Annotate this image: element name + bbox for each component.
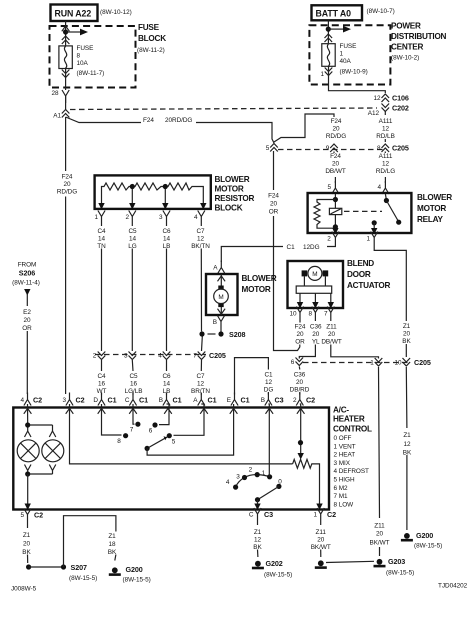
svg-text:C7: C7 bbox=[196, 373, 205, 380]
svg-text:4 DEFROST: 4 DEFROST bbox=[334, 468, 370, 475]
svg-text:2: 2 bbox=[93, 353, 97, 360]
svg-text:1: 1 bbox=[366, 236, 370, 243]
svg-text:G200: G200 bbox=[126, 565, 143, 574]
svg-text:FUSE: FUSE bbox=[138, 23, 160, 32]
svg-text:E2: E2 bbox=[23, 309, 31, 316]
svg-text:G202: G202 bbox=[266, 559, 283, 568]
svg-text:OR: OR bbox=[22, 325, 32, 332]
blower motor internals bbox=[220, 274, 222, 315]
svg-text:C205: C205 bbox=[392, 144, 409, 153]
svg-text:M: M bbox=[218, 294, 223, 301]
svg-text:Z1: Z1 bbox=[254, 529, 262, 536]
ground G202 bbox=[252, 561, 264, 570]
svg-text:LB: LB bbox=[163, 243, 171, 250]
svg-text:LG: LG bbox=[128, 243, 137, 250]
svg-text:BK/TN: BK/TN bbox=[191, 243, 210, 250]
svg-text:C36: C36 bbox=[310, 324, 322, 331]
svg-text:20: 20 bbox=[317, 537, 325, 544]
svg-text:C106: C106 bbox=[392, 94, 409, 103]
svg-text:4: 4 bbox=[194, 214, 198, 221]
ground G200 left bbox=[109, 567, 121, 576]
wire Z1 12 BK to G202 bbox=[257, 521, 259, 557]
wire fuse to pin 28 bbox=[65, 69, 67, 91]
svg-text:FUSE: FUSE bbox=[77, 45, 94, 52]
connector C205 bottom dashed line bbox=[303, 362, 410, 364]
svg-text:(8W-10-7): (8W-10-7) bbox=[367, 8, 395, 15]
svg-text:S207: S207 bbox=[71, 563, 87, 572]
svg-text:C2: C2 bbox=[306, 396, 315, 405]
svg-text:DB/WT: DB/WT bbox=[325, 168, 345, 175]
ground stud joint bbox=[315, 560, 327, 569]
relay internal resistor bbox=[314, 200, 335, 229]
svg-text:12: 12 bbox=[382, 161, 390, 168]
svg-text:12: 12 bbox=[403, 441, 411, 448]
relay coil bbox=[329, 208, 341, 214]
svg-text:BLOWER: BLOWER bbox=[242, 274, 277, 283]
svg-text:BK: BK bbox=[402, 338, 411, 345]
svg-text:10: 10 bbox=[394, 360, 402, 367]
node relay coil top bbox=[333, 197, 338, 202]
lamp return wire to pin 5 C2 bbox=[27, 474, 29, 509]
mode switch wiper arm bbox=[258, 486, 279, 499]
fuse F8 10A bbox=[59, 46, 72, 69]
actuator linkage bar bbox=[296, 286, 332, 293]
svg-text:BK: BK bbox=[403, 450, 412, 457]
wire BATT A0 to fuse 1 bbox=[327, 20, 329, 43]
svg-text:BK/WT: BK/WT bbox=[370, 540, 390, 547]
connector C202 pin A12 bbox=[382, 104, 390, 112]
svg-text:BLOCK: BLOCK bbox=[138, 34, 166, 43]
svg-text:3: 3 bbox=[124, 353, 128, 360]
wire A111 12 RD/LG to relay pin 4 bbox=[384, 152, 386, 184]
blower switch contact 8 from pin D bbox=[102, 404, 122, 435]
wire Z11 20 BK/WT to ground point bbox=[320, 521, 322, 557]
BATT A0 box bbox=[312, 5, 363, 20]
svg-text:20: 20 bbox=[332, 126, 340, 133]
svg-text:4: 4 bbox=[377, 184, 381, 191]
wire C4 14 TN bbox=[101, 224, 103, 352]
wire F24 20 OR from C205 pin 5 down bbox=[274, 151, 301, 351]
svg-text:C1: C1 bbox=[241, 396, 250, 405]
svg-text:2: 2 bbox=[125, 214, 129, 221]
mode switch contact arc bbox=[236, 475, 270, 488]
wire C5 14 LG bbox=[131, 224, 133, 352]
svg-text:F24: F24 bbox=[330, 153, 341, 160]
svg-text:14: 14 bbox=[163, 236, 171, 243]
svg-text:BLEND: BLEND bbox=[347, 259, 374, 268]
dimmer wiper from pin 2 C2 bbox=[299, 404, 302, 454]
svg-text:C5: C5 bbox=[128, 228, 137, 235]
svg-text:A12: A12 bbox=[368, 110, 380, 117]
svg-text:C: C bbox=[125, 397, 130, 404]
wire F24 main run down to heater control bbox=[65, 117, 67, 394]
resistor chain bbox=[102, 183, 204, 207]
svg-text:6: 6 bbox=[291, 359, 295, 366]
svg-text:(8W-15-5): (8W-15-5) bbox=[264, 572, 292, 579]
blower switch wiper arm bbox=[147, 437, 167, 449]
svg-text:Z11: Z11 bbox=[316, 529, 327, 536]
svg-text:2: 2 bbox=[327, 236, 331, 243]
svg-text:7: 7 bbox=[130, 427, 134, 434]
wire C7 12 BR/TN bbox=[200, 360, 202, 395]
svg-text:20: 20 bbox=[312, 331, 320, 338]
svg-text:9: 9 bbox=[326, 145, 330, 152]
svg-text:C1: C1 bbox=[264, 372, 273, 379]
svg-text:8 LOW: 8 LOW bbox=[334, 501, 355, 508]
svg-text:4: 4 bbox=[20, 397, 24, 404]
fuse F1 40A bbox=[322, 44, 335, 67]
relay switch fixed contact to pin 1 bbox=[372, 220, 377, 225]
svg-text:2: 2 bbox=[249, 467, 253, 474]
svg-text:20: 20 bbox=[403, 331, 411, 338]
resistor block box bbox=[95, 175, 211, 209]
svg-text:3: 3 bbox=[62, 397, 66, 404]
wire staircase C205 pin 5 to pin 9 bbox=[274, 114, 334, 142]
connector C205 dashed line top bbox=[278, 149, 387, 151]
svg-text:Z11: Z11 bbox=[374, 523, 385, 530]
blower switch contact 5 from pin A bbox=[174, 404, 205, 435]
svg-text:14: 14 bbox=[129, 236, 137, 243]
svg-text:14: 14 bbox=[98, 236, 106, 243]
svg-text:B: B bbox=[261, 397, 265, 404]
dimmer resistor bbox=[293, 459, 320, 509]
svg-text:20: 20 bbox=[23, 541, 31, 548]
node junction in fuse block bbox=[63, 29, 68, 34]
svg-text:(8W-15-5): (8W-15-5) bbox=[386, 570, 414, 577]
blend door actuator box bbox=[288, 261, 344, 308]
svg-text:40A: 40A bbox=[340, 58, 352, 65]
wire Z11 20 DB/WT actuator pin 7 to C205 pin 1 bbox=[331, 320, 379, 359]
svg-text:F24: F24 bbox=[295, 324, 306, 331]
svg-text:MOTOR: MOTOR bbox=[242, 285, 271, 294]
svg-text:Z1: Z1 bbox=[403, 323, 411, 330]
svg-text:(8W-11-4): (8W-11-4) bbox=[12, 280, 40, 287]
mode switch feed from pin B C3 bbox=[267, 404, 270, 477]
relay coil feed wire bbox=[334, 194, 336, 208]
svg-text:BK: BK bbox=[22, 549, 31, 556]
blower switch contact 7 from pin C bbox=[133, 404, 135, 424]
svg-text:20: 20 bbox=[296, 331, 304, 338]
svg-text:Z1: Z1 bbox=[108, 533, 116, 540]
svg-text:C1: C1 bbox=[139, 396, 148, 405]
svg-text:Z11: Z11 bbox=[326, 324, 337, 331]
svg-text:C36: C36 bbox=[294, 372, 306, 379]
svg-text:12DG: 12DG bbox=[303, 244, 320, 251]
actuator motor M bbox=[308, 266, 322, 280]
svg-text:8: 8 bbox=[77, 53, 81, 60]
svg-text:C3: C3 bbox=[275, 396, 284, 405]
svg-text:7: 7 bbox=[324, 311, 328, 318]
svg-text:0 OFF: 0 OFF bbox=[334, 435, 352, 442]
svg-text:DOOR: DOOR bbox=[347, 270, 371, 279]
svg-text:TN: TN bbox=[97, 243, 106, 250]
svg-text:16: 16 bbox=[98, 381, 106, 388]
svg-text:(8W-11-2): (8W-11-2) bbox=[137, 47, 165, 54]
svg-text:20: 20 bbox=[376, 531, 384, 538]
svg-text:C1: C1 bbox=[287, 244, 296, 251]
svg-text:C6: C6 bbox=[162, 228, 171, 235]
svg-text:B: B bbox=[159, 397, 163, 404]
blower motor relay box bbox=[308, 193, 412, 233]
svg-text:6: 6 bbox=[149, 428, 153, 435]
mode switch wiper to pin C C3 bbox=[257, 500, 259, 509]
A/C heater control box bbox=[13, 408, 329, 510]
svg-text:(8W-11-7): (8W-11-7) bbox=[77, 70, 105, 77]
svg-text:A1: A1 bbox=[53, 113, 61, 120]
svg-text:OR: OR bbox=[269, 209, 279, 216]
svg-text:Z1: Z1 bbox=[23, 532, 31, 539]
svg-text:C1: C1 bbox=[208, 396, 217, 405]
relay switch common from pin 4 bbox=[385, 194, 386, 200]
panel feed wire pin 3 C2 to dimmer resistor bbox=[70, 404, 293, 464]
svg-text:BK: BK bbox=[108, 549, 117, 556]
svg-text:BLOCK: BLOCK bbox=[215, 204, 243, 213]
svg-text:C205: C205 bbox=[209, 351, 226, 360]
svg-text:C2: C2 bbox=[33, 396, 42, 405]
svg-text:BATT A0: BATT A0 bbox=[316, 9, 352, 19]
wire pin B to splice bbox=[220, 329, 222, 335]
svg-text:8: 8 bbox=[117, 438, 121, 445]
svg-text:Z1: Z1 bbox=[403, 432, 411, 439]
svg-text:(8W-10-9): (8W-10-9) bbox=[340, 69, 368, 76]
svg-text:RD/LB: RD/LB bbox=[376, 133, 395, 140]
wire Z11 20 BK/WT C205 pin 1 to ground G203 bbox=[379, 367, 380, 556]
svg-text:12: 12 bbox=[373, 95, 381, 102]
svg-text:F24: F24 bbox=[62, 173, 73, 180]
wire C5 16 LG/LB bbox=[131, 360, 134, 395]
svg-text:4: 4 bbox=[158, 353, 162, 360]
svg-text:10: 10 bbox=[289, 311, 297, 318]
svg-text:S208: S208 bbox=[229, 330, 245, 339]
svg-text:DISTRIBUTION: DISTRIBUTION bbox=[391, 32, 447, 41]
svg-text:18: 18 bbox=[108, 541, 116, 548]
svg-text:1: 1 bbox=[313, 512, 317, 519]
svg-text:C2: C2 bbox=[327, 510, 336, 519]
svg-text:E: E bbox=[227, 397, 231, 404]
wire C4 16 WT bbox=[101, 360, 103, 395]
svg-text:POWER: POWER bbox=[391, 22, 421, 31]
wire C1 12DG relay pin 2 to blower motor bbox=[221, 245, 335, 263]
svg-text:20RD/DG: 20RD/DG bbox=[165, 117, 192, 124]
wire C7 12 BK/TN bbox=[201, 224, 202, 352]
actuator pin drops bbox=[300, 293, 331, 308]
svg-text:DB/RD: DB/RD bbox=[290, 387, 310, 394]
svg-text:1: 1 bbox=[262, 470, 266, 477]
svg-text:BLOWER: BLOWER bbox=[215, 175, 250, 184]
svg-text:6 M2: 6 M2 bbox=[334, 485, 349, 492]
splice S208 bbox=[218, 331, 223, 336]
svg-text:5: 5 bbox=[266, 145, 270, 152]
svg-text:14: 14 bbox=[163, 381, 171, 388]
svg-text:5 HIGH: 5 HIGH bbox=[334, 477, 355, 484]
lamp feed wire from pin 4 C2 bbox=[28, 404, 53, 431]
svg-text:S206: S206 bbox=[19, 269, 35, 278]
wire A111 12 RD/LB bbox=[384, 111, 386, 142]
svg-text:2 HEAT: 2 HEAT bbox=[334, 452, 356, 459]
flow chevrons down bbox=[62, 70, 70, 78]
branch arrow to other circuits bbox=[66, 31, 81, 33]
flow chevrons up bbox=[325, 34, 333, 42]
svg-text:F24: F24 bbox=[331, 118, 342, 125]
svg-text:RD/DG: RD/DG bbox=[57, 188, 77, 195]
blower motor armature M bbox=[214, 289, 229, 304]
blower switch wiper feed from pin E bbox=[147, 404, 234, 455]
svg-text:YL: YL bbox=[312, 339, 320, 346]
svg-text:3: 3 bbox=[159, 214, 163, 221]
power distribution center dashed box bbox=[309, 25, 390, 84]
blower motor box bbox=[206, 274, 238, 315]
wire fuse 1 to C106 bbox=[329, 66, 386, 93]
svg-text:20: 20 bbox=[328, 331, 336, 338]
fuse block dashed box bbox=[50, 26, 136, 88]
svg-text:(8W-10-12): (8W-10-12) bbox=[100, 9, 132, 16]
svg-text:1 VENT: 1 VENT bbox=[334, 443, 356, 450]
svg-text:M: M bbox=[312, 271, 317, 278]
svg-text:20: 20 bbox=[23, 317, 31, 324]
svg-text:8: 8 bbox=[377, 145, 381, 152]
entry arrow into fuse block bbox=[62, 26, 70, 31]
svg-text:1: 1 bbox=[94, 214, 98, 221]
svg-text:RD/DG: RD/DG bbox=[326, 133, 346, 140]
illumination lamp left bbox=[17, 440, 39, 462]
svg-text:G203: G203 bbox=[388, 557, 405, 566]
node at wire end bbox=[26, 564, 31, 569]
svg-text:CONTROL: CONTROL bbox=[333, 425, 372, 434]
svg-text:5: 5 bbox=[20, 512, 24, 519]
svg-text:7: 7 bbox=[193, 353, 197, 360]
svg-text:RD/LG: RD/LG bbox=[376, 168, 395, 175]
svg-text:C4: C4 bbox=[97, 228, 106, 235]
svg-text:7 M1: 7 M1 bbox=[334, 493, 349, 500]
svg-text:C6: C6 bbox=[162, 373, 171, 380]
lamp terminal forks top bbox=[25, 431, 56, 437]
svg-text:F24: F24 bbox=[143, 117, 154, 124]
connector C205 middle dashed line bbox=[95, 354, 206, 356]
svg-text:0: 0 bbox=[278, 479, 282, 486]
svg-text:F24: F24 bbox=[268, 193, 279, 200]
svg-text:12: 12 bbox=[382, 126, 390, 133]
svg-text:BK: BK bbox=[253, 544, 262, 551]
wire relay pin 1 to ground Z1 bbox=[374, 245, 406, 358]
svg-text:C7: C7 bbox=[196, 228, 205, 235]
svg-text:2: 2 bbox=[293, 397, 297, 404]
svg-text:C3: C3 bbox=[264, 510, 273, 519]
svg-text:4: 4 bbox=[226, 479, 230, 486]
relay mechanical link dashed bbox=[344, 210, 382, 212]
svg-text:20: 20 bbox=[296, 379, 304, 386]
svg-text:1: 1 bbox=[340, 51, 344, 58]
svg-text:FUSE: FUSE bbox=[340, 43, 357, 50]
wire Z1 12 BK C205 pin 10 to ground G200 bbox=[405, 367, 408, 530]
svg-text:C202: C202 bbox=[392, 104, 409, 113]
svg-text:(8W-15-5): (8W-15-5) bbox=[69, 575, 97, 582]
svg-text:10A: 10A bbox=[77, 60, 89, 67]
ground G200 right bbox=[401, 533, 413, 542]
svg-text:12: 12 bbox=[254, 537, 262, 544]
connector C202 dashed line bbox=[70, 108, 377, 110]
lamp terminal forks bottom bbox=[25, 465, 56, 475]
svg-text:3 MIX: 3 MIX bbox=[334, 460, 351, 467]
RUN A22 ignition switch output box bbox=[51, 5, 98, 22]
svg-text:A/C-: A/C- bbox=[333, 406, 349, 415]
svg-text:J008W-5: J008W-5 bbox=[11, 586, 37, 593]
svg-text:CENTER: CENTER bbox=[391, 43, 423, 52]
wire E2 20 OR bbox=[26, 294, 28, 394]
wire ground link to G203 bbox=[326, 561, 374, 562]
jumper wire heater pin E C1 to pin B C3 bbox=[235, 358, 269, 395]
svg-text:A111: A111 bbox=[379, 153, 393, 160]
flow chevrons down bbox=[325, 68, 333, 76]
svg-text:(8W-10-2): (8W-10-2) bbox=[391, 55, 419, 62]
wire C36 20 DB/RD to heater pin 2 C2 bbox=[298, 367, 301, 395]
svg-text:BK/WT: BK/WT bbox=[311, 544, 331, 551]
svg-text:(8W-15-5): (8W-15-5) bbox=[123, 577, 151, 584]
wire F24 20 DB/WT to relay pin 5 bbox=[334, 152, 335, 184]
svg-text:MOTOR: MOTOR bbox=[215, 185, 244, 194]
svg-text:12: 12 bbox=[197, 381, 205, 388]
relay coil to pin 2 bbox=[334, 215, 336, 232]
svg-text:RELAY: RELAY bbox=[417, 215, 444, 224]
svg-text:C1: C1 bbox=[108, 396, 117, 405]
svg-text:C4: C4 bbox=[97, 373, 106, 380]
svg-text:MOTOR: MOTOR bbox=[417, 204, 446, 213]
svg-text:ACTUATOR: ACTUATOR bbox=[347, 281, 391, 290]
wire C6 14 LB bbox=[166, 360, 168, 395]
svg-text:OR: OR bbox=[295, 339, 305, 346]
svg-text:C5: C5 bbox=[129, 373, 138, 380]
svg-text:RESISTOR: RESISTOR bbox=[215, 194, 255, 203]
svg-text:20: 20 bbox=[63, 181, 71, 188]
svg-text:C2: C2 bbox=[34, 511, 43, 520]
svg-text:DB/WT: DB/WT bbox=[321, 339, 341, 346]
svg-text:20: 20 bbox=[270, 201, 278, 208]
relay switch arm open bbox=[386, 201, 398, 222]
svg-text:3: 3 bbox=[236, 474, 240, 481]
svg-text:C205: C205 bbox=[414, 358, 431, 367]
svg-text:HEATER: HEATER bbox=[333, 415, 365, 424]
svg-text:1: 1 bbox=[320, 71, 324, 78]
svg-text:5: 5 bbox=[327, 184, 331, 191]
svg-text:C2: C2 bbox=[76, 396, 85, 405]
wire S207 riser to G200 bbox=[64, 516, 116, 567]
wire C36 20 YL actuator pin 8 to C205 pin 6 bbox=[299, 320, 315, 359]
svg-text:BLOWER: BLOWER bbox=[417, 193, 452, 202]
svg-text:DG: DG bbox=[264, 387, 274, 394]
svg-text:TJD04202: TJD04202 bbox=[438, 583, 468, 590]
svg-text:FROM: FROM bbox=[18, 262, 37, 269]
svg-text:12: 12 bbox=[265, 379, 273, 386]
svg-text:8: 8 bbox=[308, 311, 312, 318]
svg-text:G200: G200 bbox=[416, 531, 433, 540]
wire Z1 20 BK to splice S207 bbox=[28, 522, 29, 568]
svg-text:A111: A111 bbox=[379, 118, 393, 125]
branch arrow to other circuits bbox=[328, 28, 344, 30]
svg-text:C1: C1 bbox=[173, 396, 182, 405]
svg-text:D: D bbox=[93, 397, 98, 404]
wire RUN A22 to fuse 8 bbox=[65, 21, 67, 46]
svg-text:12: 12 bbox=[197, 236, 205, 243]
svg-text:5: 5 bbox=[172, 439, 176, 446]
svg-text:1: 1 bbox=[370, 360, 374, 367]
ground G203 bbox=[374, 559, 386, 568]
blower switch contact 6 from pin B bbox=[159, 404, 169, 425]
svg-text:20: 20 bbox=[332, 161, 340, 168]
svg-text:16: 16 bbox=[130, 381, 138, 388]
wire C6 14 LB bbox=[166, 224, 168, 352]
mode switch contact 0 bbox=[276, 484, 281, 489]
wire to splice S207 bbox=[29, 566, 64, 568]
svg-text:28: 28 bbox=[51, 90, 59, 97]
